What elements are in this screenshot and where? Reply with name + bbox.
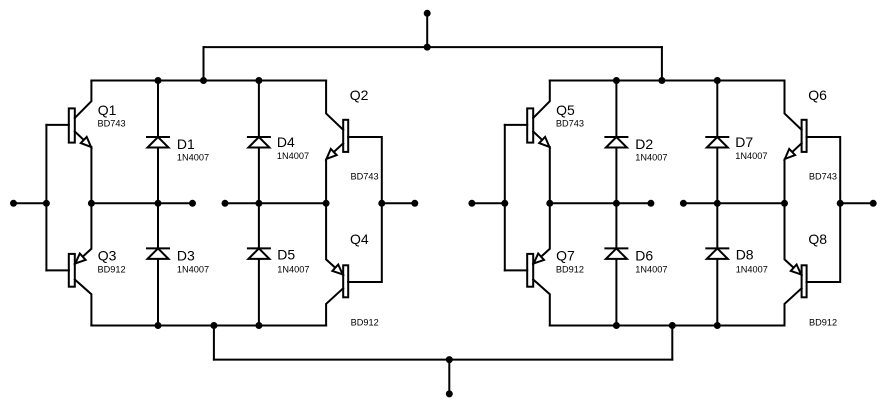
junction: [613, 322, 620, 329]
junction: [378, 200, 385, 207]
junction: [411, 200, 418, 207]
wire left base line: [504, 125, 506, 271]
svg-text:BD912: BD912: [809, 317, 837, 327]
wire bridge bottom rail: [91, 325, 326, 327]
svg-text:Q2: Q2: [350, 87, 369, 103]
svg-text:1N4007: 1N4007: [735, 151, 767, 161]
junction: [255, 200, 262, 207]
junction: [613, 77, 620, 84]
junction: [189, 200, 196, 207]
wire diode column 2: [716, 81, 718, 326]
svg-text:D2: D2: [635, 136, 653, 152]
svg-text:Q6: Q6: [808, 87, 827, 103]
junction: [255, 77, 262, 84]
junction: [714, 200, 721, 207]
svg-text:D5: D5: [277, 247, 295, 263]
svg-text:D4: D4: [277, 134, 295, 150]
wire left half output: [91, 202, 192, 204]
transistor Q7 (PNP BD912): [505, 203, 550, 325]
junction: [210, 322, 217, 329]
svg-text:Q4: Q4: [350, 231, 369, 247]
transistor Q4 (PNP BD912): [326, 203, 382, 325]
diode D1 (1N4007): [147, 137, 169, 148]
transistor Q2 (NPN BD743): [326, 81, 382, 204]
svg-text:1N4007: 1N4007: [177, 264, 209, 274]
wire right riser from bridge 2: [671, 326, 673, 360]
junction: [468, 200, 475, 207]
wire right half output: [683, 202, 784, 204]
junction: [200, 77, 207, 84]
junction: [88, 200, 95, 207]
wire diode column 1: [157, 81, 159, 326]
wire bridge bottom rail: [550, 325, 785, 327]
svg-text:1N4007: 1N4007: [277, 151, 309, 161]
junction: [546, 200, 553, 207]
svg-text:Q7: Q7: [556, 248, 575, 264]
junction: [501, 200, 508, 207]
transistor Q5 (NPN BD743): [505, 81, 550, 204]
junction: [870, 200, 877, 207]
svg-text:1N4007: 1N4007: [635, 264, 667, 274]
wire right drop to bridge 2: [661, 47, 663, 80]
diode D6 (1N4007): [605, 248, 627, 259]
wire main positive rail: [204, 46, 662, 48]
wire left drop to bridge 1: [203, 47, 205, 80]
junction: [323, 200, 330, 207]
terminal V-: [446, 390, 453, 397]
svg-text:D8: D8: [736, 247, 754, 263]
transistor Q1 (NPN BD743): [46, 81, 91, 204]
junction: [680, 200, 687, 207]
svg-text:Q5: Q5: [556, 102, 575, 118]
wire main negative rail: [214, 359, 672, 361]
svg-text:BD743: BD743: [556, 119, 584, 129]
diode D5 (1N4007): [248, 248, 270, 259]
junction: [10, 200, 17, 207]
junction: [714, 77, 721, 84]
svg-text:D7: D7: [735, 134, 753, 150]
junction: [424, 44, 431, 51]
diode D8 (1N4007): [706, 248, 728, 259]
svg-text:BD912: BD912: [351, 317, 379, 327]
svg-text:1N4007: 1N4007: [736, 265, 768, 275]
wire diode column 1: [615, 81, 617, 326]
junction: [446, 356, 453, 363]
svg-text:BD743: BD743: [98, 119, 126, 129]
svg-text:BD912: BD912: [98, 264, 126, 274]
junction: [222, 200, 229, 207]
svg-text:1N4007: 1N4007: [635, 153, 667, 163]
svg-text:BD912: BD912: [556, 264, 584, 274]
wire right bases to terminal: [840, 202, 873, 204]
junction: [155, 322, 162, 329]
junction: [155, 77, 162, 84]
junction: [714, 322, 721, 329]
terminal V+: [424, 10, 431, 17]
junction: [658, 77, 665, 84]
diode D3 (1N4007): [147, 248, 169, 259]
junction: [669, 322, 676, 329]
svg-text:D6: D6: [635, 247, 653, 263]
junction: [647, 200, 654, 207]
svg-text:Q3: Q3: [98, 248, 117, 264]
junction: [155, 200, 162, 207]
junction: [837, 200, 844, 207]
wire negative supply stub: [448, 360, 450, 394]
junction: [255, 322, 262, 329]
wire input to bases: [472, 202, 505, 204]
svg-text:BD743: BD743: [809, 171, 837, 181]
wire left half output: [550, 202, 651, 204]
wire input to bases: [14, 202, 47, 204]
svg-text:D1: D1: [177, 136, 195, 152]
diode D2 (1N4007): [605, 137, 627, 148]
diode D7 (1N4007): [706, 137, 728, 148]
wire bridge top rail: [91, 80, 326, 82]
wire right half output: [225, 202, 326, 204]
svg-text:Q8: Q8: [808, 231, 827, 247]
transistor Q6 (NPN BD743): [785, 81, 841, 204]
svg-text:D3: D3: [177, 247, 195, 263]
svg-text:1N4007: 1N4007: [277, 265, 309, 275]
transistor Q3 (PNP BD912): [46, 203, 91, 325]
wire right bases to terminal: [382, 202, 415, 204]
svg-text:1N4007: 1N4007: [177, 153, 209, 163]
svg-text:BD743: BD743: [351, 171, 379, 181]
junction: [43, 200, 50, 207]
wire positive supply stub: [426, 13, 428, 47]
transistor Q8 (PNP BD912): [785, 203, 841, 325]
junction: [613, 200, 620, 207]
wire left base line: [45, 125, 47, 271]
diode D4 (1N4007): [248, 137, 270, 148]
wire diode column 2: [258, 81, 260, 326]
junction: [781, 200, 788, 207]
wire bridge top rail: [550, 80, 785, 82]
wire left riser from bridge 1: [213, 326, 215, 360]
svg-text:Q1: Q1: [98, 102, 117, 118]
